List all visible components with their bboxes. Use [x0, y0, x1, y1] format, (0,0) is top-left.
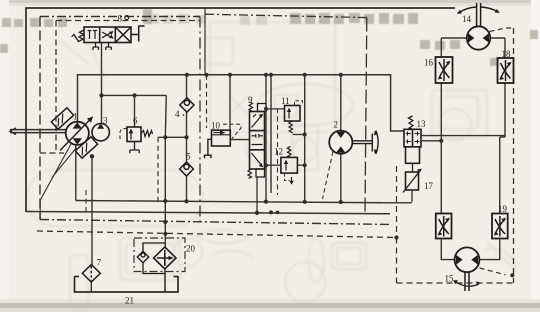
drain dashed diagonal from motor 15	[480, 268, 506, 275]
wire: dashed drain stub	[157, 137, 159, 202]
motor 2 shaft	[352, 131, 378, 155]
svg-text:4: 4	[175, 109, 180, 119]
wire: pump B line down	[75, 145, 77, 201]
chain enclosure box right edge	[199, 17, 201, 223]
wire: supply drop to valve 10/9	[229, 75, 231, 130]
connecting loop for bypass	[143, 243, 165, 274]
tank return rail	[76, 201, 390, 203]
pilot port circle	[125, 16, 129, 20]
svg-text:5: 5	[186, 152, 191, 162]
pump P1 variable main pump	[66, 122, 89, 145]
right drain dashed bottom	[397, 282, 514, 284]
valve 10 output to valve 9	[230, 139, 249, 141]
charge pump 3	[92, 124, 109, 141]
wire: charge return column	[165, 95, 166, 248]
junction dots lower rails	[269, 210, 273, 214]
svg-text:11: 11	[281, 96, 290, 106]
svg-text:15: 15	[445, 274, 455, 284]
spring right of valve 6	[141, 131, 153, 137]
valve 13 to valve 17	[412, 163, 414, 172]
svg-text:18: 18	[502, 49, 512, 59]
junction: drain net left	[394, 235, 398, 239]
wire: right column upper	[500, 38, 505, 214]
bypass check valve	[137, 251, 148, 262]
chain enclosure bottom rail	[40, 220, 392, 225]
filter 20 diamond	[154, 247, 176, 269]
variable displacement arrow through pump	[60, 117, 93, 151]
svg-text:9: 9	[248, 95, 253, 105]
dashed drain rail (sloped)	[37, 231, 397, 238]
dashed enclosure (pump sub group) top	[56, 20, 200, 22]
tank symbols under valve 8	[93, 43, 111, 51]
wire: valve8 to charge pump	[101, 43, 103, 124]
wire: left column	[440, 38, 442, 214]
motor 2 leak dashed	[323, 152, 334, 200]
svg-text:10: 10	[211, 121, 221, 131]
svg-text:21: 21	[125, 296, 134, 306]
mechanical feedback leader line B	[52, 148, 77, 178]
motor 14 rotation arrows	[459, 7, 477, 13]
svg-text:2: 2	[334, 120, 339, 130]
svg-text:13: 13	[417, 119, 427, 129]
motor 15 shaft	[465, 272, 469, 291]
svg-text:12: 12	[274, 147, 283, 157]
line from filter 20 down to tank	[164, 269, 166, 292]
svg-text:6: 6	[133, 116, 138, 126]
middle cell arrows	[102, 32, 113, 39]
valve 13 cell arrows	[406, 132, 420, 144]
junction dots on buses	[90, 73, 343, 236]
svg-text:3: 3	[103, 116, 108, 126]
right drain dashed mid vertical	[396, 238, 398, 284]
wire: pump case drain to filter 7	[90, 156, 93, 292]
svg-text:14: 14	[462, 14, 472, 24]
dashed enclosure bottom stub	[40, 152, 64, 154]
chain vertical (valve unit right edge)	[365, 18, 367, 212]
chain top rail (valve unit box)	[205, 14, 368, 17]
valve 10 pilot box	[212, 130, 231, 146]
drain dashed from valve 17	[396, 166, 398, 238]
svg-text:1: 1	[73, 112, 78, 122]
junction: drain net right	[510, 273, 514, 277]
valve 9 top spring and pilot box	[249, 102, 253, 112]
main pressure line: pump top to right	[78, 75, 405, 131]
dashed enclosure left edge	[55, 21, 57, 153]
valve 6 drain and tank	[130, 142, 139, 154]
right cell crossed block	[115, 27, 131, 43]
svg-text:7: 7	[97, 258, 102, 268]
mechanical feedback leader line A	[40, 144, 71, 220]
svg-text:20: 20	[186, 244, 196, 254]
lever on right of valve 8	[131, 26, 145, 42]
chain box around 20	[134, 238, 185, 272]
bottom solid rail lower	[26, 212, 390, 214]
wire: valve6 feed	[134, 95, 136, 127]
wire: motor 14 port lines	[441, 37, 505, 39]
valve 9 cell arrows	[252, 114, 264, 166]
outer solid enclosure frame	[26, 8, 455, 212]
wire: dashed stub left	[85, 190, 87, 215]
servo actuator upper-left	[51, 108, 73, 129]
valve 6 pilot dashes	[120, 128, 127, 141]
spring on left of valve 8	[72, 30, 85, 42]
valve 13 port lines to right	[421, 135, 505, 137]
wire: cross link	[158, 136, 187, 138]
drain dashed diagonal to motor 14	[490, 28, 514, 32]
wire: charge header	[102, 94, 167, 96]
motor 15 rotation arrow	[455, 282, 479, 287]
svg-text:16: 16	[424, 58, 434, 68]
chain enclosure box left edge	[39, 17, 41, 220]
servo actuator lower-right	[75, 137, 97, 158]
wires to motor 15	[441, 239, 499, 260]
wire: check valve column	[186, 75, 188, 203]
svg-text:8: 8	[118, 14, 123, 24]
chain enclosure box (pump unit) top	[40, 16, 200, 18]
left cell symbols	[88, 31, 98, 40]
valve 9 tank drop	[256, 177, 258, 213]
drive shaft	[10, 128, 67, 135]
valve 10 dashed pilot bracket	[223, 124, 241, 138]
valve 9 bottom spring and pilot box	[248, 169, 252, 179]
right drain dashed net vertical	[513, 28, 515, 283]
thin divider vertical	[204, 8, 206, 75]
motor 14 shaft	[477, 3, 481, 26]
svg-text:19: 19	[498, 204, 508, 214]
svg-text:17: 17	[424, 181, 434, 191]
valve 10 tank line	[205, 139, 212, 158]
pilot dashed drop	[206, 75, 208, 128]
